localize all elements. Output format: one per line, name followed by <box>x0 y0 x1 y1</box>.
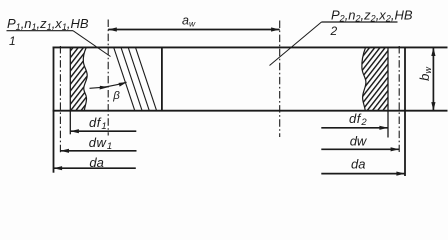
svg-text:P2,n2,z2,x2,HB: P2,n2,z2,x2,HB <box>331 8 413 24</box>
gear 1 root line df1 with extension down <box>69 47 71 134</box>
gear 1 pitch line dw1 (dash-dot) <box>59 46 61 153</box>
dimension line aw <box>108 29 280 31</box>
svg-text:da: da <box>351 157 365 172</box>
svg-text:bw: bw <box>417 67 433 81</box>
fraction bar gear 2 <box>322 21 398 23</box>
bw top arrowhead <box>431 47 435 56</box>
svg-text:P1,n1,z1,x1,HB: P1,n1,z1,x1,HB <box>7 16 89 32</box>
df1 arrowhead <box>70 129 79 133</box>
gear 1 tip circle right edge <box>161 47 163 110</box>
svg-text:dw: dw <box>350 134 368 149</box>
dw right arrowhead <box>391 147 400 151</box>
leader line to gear 2 parameters <box>270 22 322 66</box>
gear blank top edge <box>53 46 448 48</box>
helix angle beta arc <box>90 82 127 88</box>
svg-text:df2: df2 <box>349 111 367 128</box>
gear 2 root line df2 with extension down <box>387 47 389 137</box>
da left arrowhead <box>54 166 63 170</box>
gear 1 axis centerline <box>107 20 109 136</box>
dw1 arrowhead <box>60 149 69 153</box>
gear 2 rim break line (wavy) <box>362 47 366 110</box>
leader line to gear 1 parameters <box>73 31 111 57</box>
da right arrowhead <box>396 172 405 176</box>
fraction bar gear 1 <box>7 30 74 32</box>
dimension line da right <box>321 173 405 175</box>
dimension line dw right <box>321 148 399 150</box>
dimension line da left <box>54 167 136 169</box>
tooth inclination line 2 <box>121 47 142 110</box>
aw left arrowhead <box>108 27 117 31</box>
df2 arrowhead <box>379 126 388 130</box>
aw right arrowhead <box>271 27 280 31</box>
gear 1 rim break line (wavy) <box>83 47 87 110</box>
gear 1 rim hatching <box>70 47 87 110</box>
svg-text:1: 1 <box>9 34 16 48</box>
tooth inclination line 4 <box>136 47 157 110</box>
gear 2 tip edge da2 (right) with extension down <box>404 47 406 177</box>
gear blank bottom edge <box>53 110 448 112</box>
tooth inclination line 1 <box>114 47 135 110</box>
svg-text:da: da <box>89 155 103 170</box>
svg-text:2: 2 <box>330 24 338 38</box>
beta arc arrowhead at axis <box>100 86 109 90</box>
svg-text:aw: aw <box>182 13 196 28</box>
dimension line df2 <box>321 127 388 129</box>
dimension line dw1 <box>60 150 136 152</box>
gear 2 rim hatching <box>362 47 388 110</box>
gear 2 pitch line dw2 (dash-dot) <box>398 46 400 152</box>
svg-text:df1: df1 <box>89 115 107 132</box>
svg-text:dw1: dw1 <box>89 135 113 152</box>
tooth inclination line 3 <box>128 47 149 110</box>
bw bottom arrowhead <box>431 102 435 111</box>
gear 2 axis centerline <box>279 21 281 138</box>
dimension line bw <box>432 47 434 110</box>
svg-text:β: β <box>112 90 120 102</box>
dimension line df1 <box>70 130 136 132</box>
beta arc arrowhead at tooth line <box>119 82 127 87</box>
gear 1 tip edge da1 (left) with extension down <box>53 47 55 173</box>
